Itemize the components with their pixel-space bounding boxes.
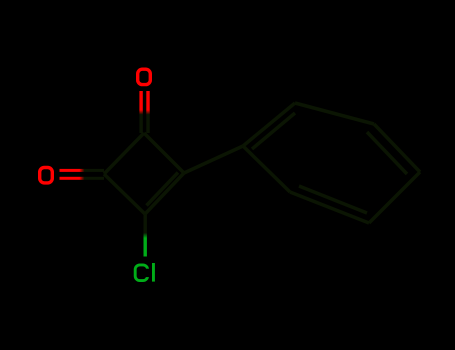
wire C4-C1: [144, 133, 184, 173]
wire C3-C4 (double bond C3=C4): [145, 173, 184, 214]
oxygen O1 label (top): [138, 69, 151, 84]
wire C-D: [374, 124, 420, 172]
wire D-E: [369, 172, 420, 223]
aromatic inner line A-B: [252, 113, 295, 149]
bond C4-phenyl (to node A): [184, 146, 243, 173]
double bond C2=O2: [60, 169, 105, 172]
oxygen O2 label (left): [40, 168, 53, 183]
aromatic inner line C-D: [367, 132, 407, 174]
bond C3-Cl: [144, 214, 147, 257]
wire E-F: [290, 192, 369, 223]
wire B-C: [295, 103, 374, 124]
cyclobutenedione ring: wire C1-C2: [104, 133, 144, 174]
wire F-A: [243, 146, 290, 192]
benzene ring: wire A-B: [243, 103, 295, 146]
aromatic inner line E-F: [299, 186, 367, 213]
chlorine Cl label: [135, 263, 155, 282]
wire C2-C3: [104, 174, 145, 214]
double bond C1=O1: [139, 91, 142, 133]
